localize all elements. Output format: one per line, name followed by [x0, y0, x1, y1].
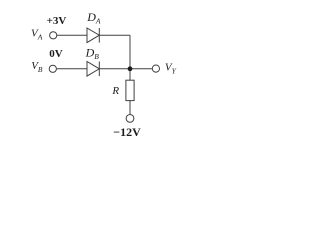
diode DA	[87, 28, 99, 43]
svg-text:DB: DB	[85, 45, 100, 61]
svg-text:−12V: −12V	[113, 125, 141, 139]
node junction dot	[128, 66, 133, 71]
wire node to resistor	[129, 69, 131, 80]
terminal VY	[152, 65, 159, 72]
terminal VA	[50, 32, 57, 39]
svg-text:DA: DA	[86, 10, 101, 26]
svg-text:VA: VA	[31, 28, 43, 42]
wire corner down to node	[129, 35, 131, 69]
diode DB	[87, 62, 99, 77]
terminal -12V	[126, 115, 134, 123]
svg-text:0V: 0V	[49, 48, 63, 60]
svg-text:VB: VB	[31, 60, 43, 74]
wire DB cathode to output node and VY	[99, 68, 152, 70]
svg-text:R: R	[111, 85, 119, 97]
wire resistor to -12V terminal	[129, 101, 131, 115]
resistor R	[126, 80, 134, 100]
terminal VB	[49, 65, 56, 72]
wire VA to DA anode	[57, 34, 87, 36]
svg-text:VY: VY	[165, 62, 177, 76]
wire DA cathode to corner	[99, 34, 130, 36]
wire VB to DB anode	[56, 68, 87, 70]
svg-text:+3V: +3V	[47, 15, 67, 27]
